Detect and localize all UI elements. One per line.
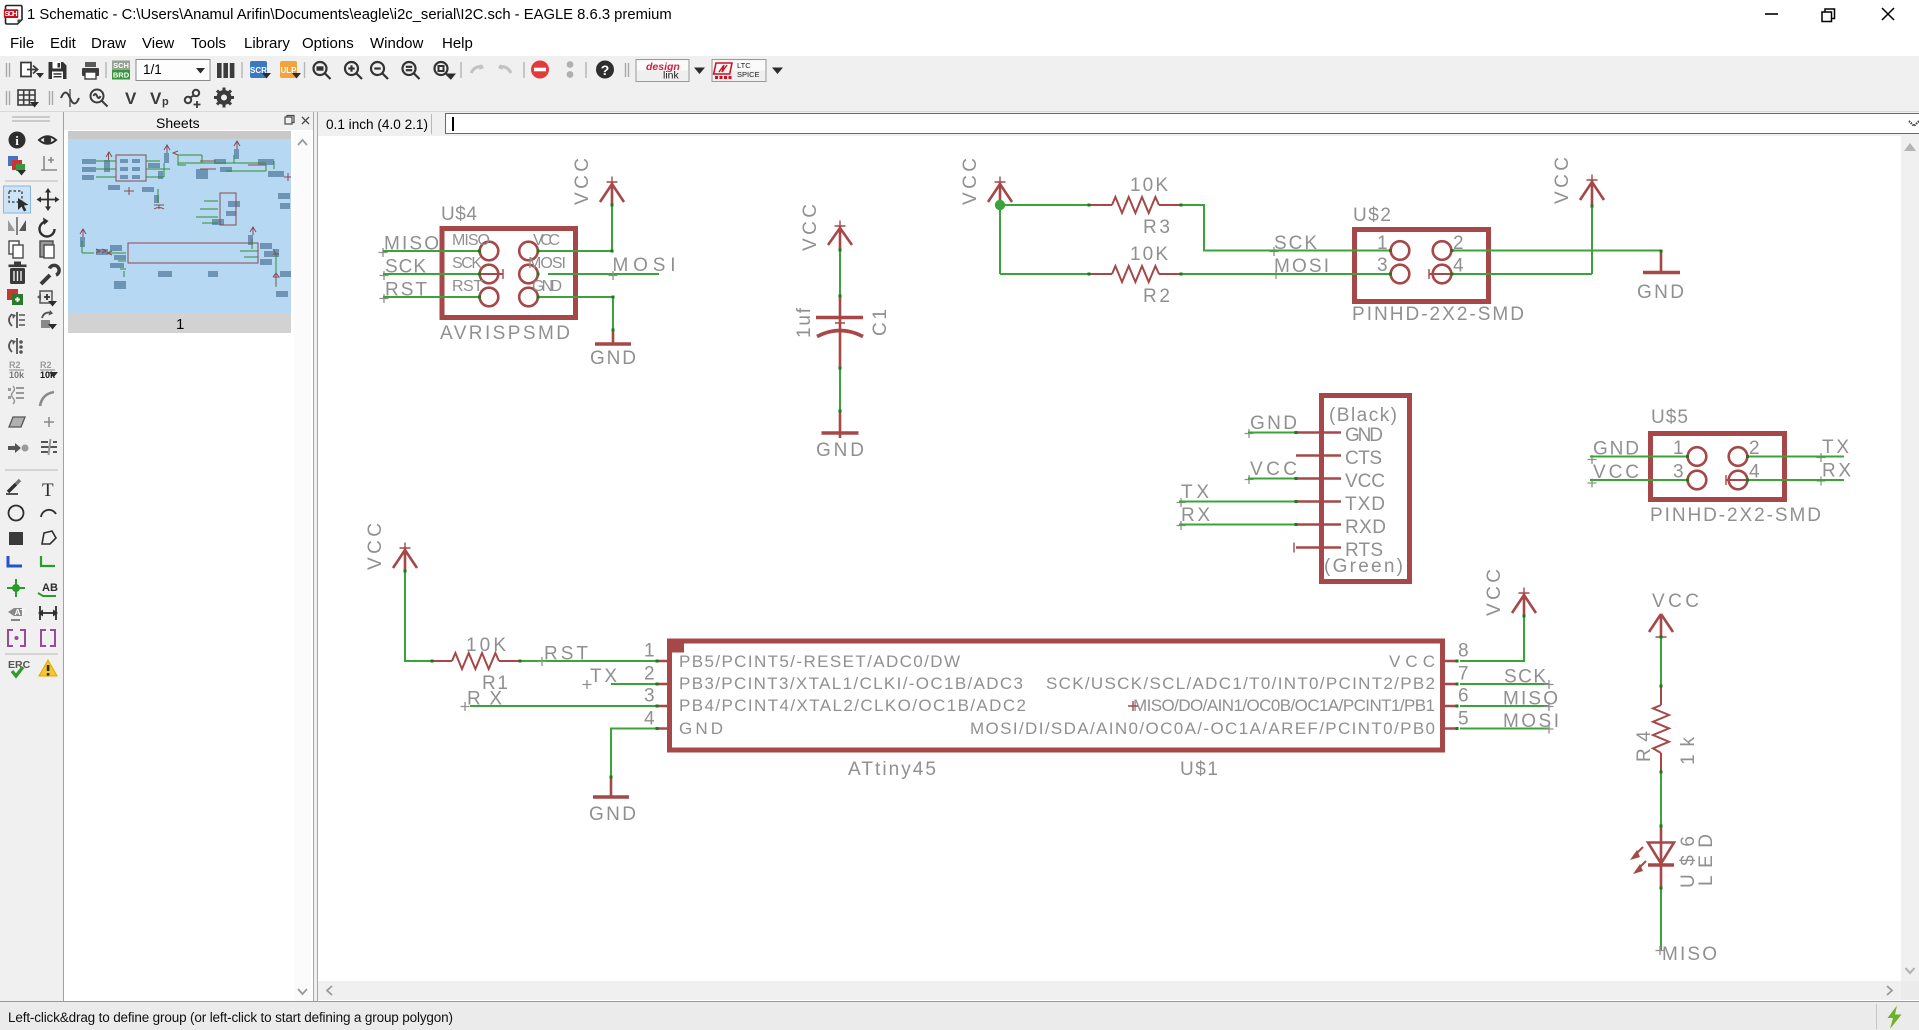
svg-text:U$5: U$5 — [1651, 407, 1688, 428]
net label GND FTDI — [1245, 413, 1298, 438]
add part — [7, 289, 23, 305]
LTC SPICE button — [712, 60, 766, 82]
wrench — [41, 265, 59, 284]
wire TX U$5 — [1747, 456, 1844, 458]
net label RST — [380, 280, 428, 304]
dim brackets 2 — [41, 630, 55, 646]
sheet thumbnail — [68, 131, 291, 333]
svg-text:10K: 10K — [1130, 244, 1168, 265]
net label VCC FTDI — [1245, 459, 1298, 484]
wire pin7 SCK — [1460, 683, 1549, 685]
ULP badge — [280, 61, 301, 79]
attribute tool — [8, 607, 26, 620]
svg-text:U$4: U$4 — [441, 204, 477, 225]
svg-text:GND: GND — [1637, 282, 1684, 303]
connector FTDI body — [1294, 396, 1410, 582]
dim brackets 1 — [8, 630, 25, 646]
smash — [8, 386, 24, 404]
wire VCC to R1 — [405, 571, 432, 661]
label tool — [38, 582, 58, 596]
svg-text:V: V — [150, 89, 162, 108]
svg-text:?: ? — [601, 62, 610, 78]
svg-text:PB4/PCINT4/XTAL2/CLKO/OC1B/ADC: PB4/PCINT4/XTAL2/CLKO/OC1B/ADC2 — [679, 696, 1026, 715]
svg-text:TX: TX — [1181, 482, 1209, 503]
svg-text:VCC: VCC — [1389, 652, 1435, 671]
resistor R2 — [1089, 244, 1181, 307]
svg-text:SCH: SCH — [5, 9, 18, 18]
supply VCC U$1 — [1484, 569, 1536, 616]
wire R4 to LED — [1660, 772, 1662, 826]
net label MOSI — [1272, 256, 1330, 279]
net label TX — [583, 666, 618, 689]
wire RST — [383, 296, 480, 298]
svg-text:AB: AB — [42, 582, 58, 594]
SCH/BRD badge — [112, 61, 130, 80]
replace / lock — [41, 310, 57, 330]
wire TX FTDI — [1179, 501, 1296, 503]
junction tool — [7, 579, 25, 597]
width tool — [38, 606, 58, 620]
svg-text:VCC: VCC — [1345, 471, 1385, 492]
pin contact dots — [404, 204, 1750, 890]
wire GND FTDI — [1248, 432, 1296, 434]
net label MISO U$1 — [1503, 689, 1558, 712]
grid icon — [18, 90, 35, 105]
zoom icons — [314, 62, 452, 79]
net label GND U$5 — [1588, 439, 1640, 465]
bus tool — [8, 556, 22, 566]
net label SCK — [380, 257, 427, 281]
link plus — [185, 90, 201, 108]
pin 4 stub U$2 — [1429, 269, 1463, 279]
svg-text:8: 8 — [1458, 641, 1469, 662]
svg-text:CTS: CTS — [1345, 448, 1382, 469]
svg-text:PINHD-2X2-SMD: PINHD-2X2-SMD — [1352, 304, 1524, 325]
svg-text:1k: 1k — [1678, 737, 1699, 766]
svg-text:LED: LED — [1696, 834, 1717, 886]
wire RX U$5 — [1747, 479, 1844, 481]
gear — [214, 88, 234, 108]
wire VCC down to R2 — [999, 205, 1001, 274]
LED U$6 — [1630, 826, 1717, 888]
arc tool — [41, 510, 56, 517]
net label MOSI U$1 — [1503, 711, 1559, 734]
wire MISO — [383, 250, 480, 252]
sheets scrollbar — [294, 131, 311, 1001]
wire MOSI U$4 — [548, 273, 659, 275]
supply VCC R3 junction — [960, 158, 1012, 205]
wire VCC to R4 — [1660, 637, 1662, 686]
ground GND U$2 — [1637, 251, 1684, 303]
svg-text:V: V — [125, 89, 137, 108]
wire RX FTDI — [1179, 524, 1296, 526]
svg-text:LTC: LTC — [737, 61, 751, 70]
svg-text:i: i — [15, 133, 19, 148]
capacitor C1 — [794, 296, 891, 368]
resistor R4 — [1634, 686, 1699, 772]
help icon — [596, 61, 614, 79]
ground GND C1 — [816, 411, 864, 461]
ground GND U$4 — [590, 330, 636, 369]
svg-text:MISO: MISO — [1662, 944, 1717, 965]
wire R3 to U$2 pin1 — [1181, 205, 1391, 251]
svg-text:U$1: U$1 — [1180, 759, 1218, 780]
sine icon — [61, 93, 79, 104]
svg-text:10K: 10K — [466, 635, 506, 656]
svg-text:VCC: VCC — [1484, 569, 1505, 616]
connector U$2 body — [1355, 230, 1489, 302]
svg-text:MISO: MISO — [452, 232, 490, 249]
wire LED to MISO — [1660, 888, 1662, 950]
svg-text:GND: GND — [589, 804, 636, 825]
stop icon — [531, 61, 549, 79]
wire R1 to pin1 — [520, 660, 657, 662]
wire tool — [6, 480, 20, 494]
svg-text:VCC: VCC — [1652, 591, 1699, 612]
svg-text:PB5/PCINT5/-RESET/ADC0/DW: PB5/PCINT5/-RESET/ADC0/DW — [679, 652, 960, 671]
svg-text:RX: RX — [1181, 505, 1210, 526]
miter — [40, 392, 54, 406]
IC U$1 ATtiny45 body — [644, 639, 1469, 750]
svg-text:RST: RST — [544, 644, 588, 665]
net label MISO LED — [1656, 944, 1718, 965]
net label RST — [538, 644, 589, 667]
net label TX FTDI — [1177, 482, 1210, 507]
wire VCC U$5 — [1590, 479, 1688, 481]
wire GND U$4 — [538, 297, 613, 330]
svg-text:VCC: VCC — [572, 158, 593, 205]
gateswap — [9, 338, 23, 354]
supply VCC U$2 — [1552, 157, 1604, 206]
value icon — [40, 360, 58, 380]
svg-text:R4: R4 — [1634, 731, 1655, 762]
net label RX U$5 — [1817, 461, 1852, 486]
svg-text:BRD: BRD — [113, 71, 130, 80]
svg-text:GND: GND — [679, 719, 723, 738]
ground GND U$1 — [589, 777, 636, 825]
svg-text:VCC: VCC — [1552, 157, 1573, 204]
net label MOSI — [609, 255, 676, 280]
svg-text:PINHD-2X2-SMD: PINHD-2X2-SMD — [1650, 505, 1821, 526]
wire VCC FTDI — [1248, 478, 1296, 480]
svg-text:MOSI/DI/SDA/AIN0/OC0A/-OC1A/AR: MOSI/DI/SDA/AIN0/OC0A/-OC1A/AREF/PCINT0/… — [970, 719, 1435, 738]
svg-text:VCC: VCC — [960, 158, 981, 205]
svg-text:7: 7 — [1458, 664, 1469, 685]
junction node — [995, 200, 1005, 210]
open icon — [21, 63, 38, 77]
net label MISO — [379, 234, 440, 258]
svg-text:SCK/USCK/SCL/ADC1/T0/INT0/PCIN: SCK/USCK/SCL/ADC1/T0/INT0/PCINT2/PB2 — [1046, 674, 1435, 693]
print icon — [82, 62, 99, 79]
wire pin8 to VCC — [1460, 616, 1524, 661]
svg-text:6: 6 — [1458, 686, 1469, 707]
svg-text:VCC: VCC — [800, 204, 821, 251]
circle tool — [9, 506, 24, 521]
svg-text:1: 1 — [176, 316, 184, 333]
svg-text:link: link — [663, 70, 680, 82]
trash — [9, 262, 27, 285]
pinswap — [9, 312, 25, 328]
svg-text:VCC: VCC — [365, 523, 386, 570]
poly — [9, 417, 25, 427]
wire GND U$5 — [1590, 456, 1688, 458]
svg-text:10K: 10K — [1130, 175, 1168, 196]
wire VCC to R3 — [1000, 204, 1089, 206]
svg-text:SCH: SCH — [113, 61, 129, 70]
invoke — [8, 443, 29, 453]
wire GND pin4 — [611, 729, 657, 778]
svg-text:3: 3 — [1377, 255, 1388, 276]
wire C1 top — [839, 250, 841, 296]
svg-text:SCK: SCK — [452, 255, 482, 272]
net label SCK U$1 — [1504, 667, 1554, 690]
wire VCC stem U$2 — [1591, 206, 1593, 274]
svg-text:MISO/DO/AIN1/OC0B/OC1A/PCINT1/: MISO/DO/AIN1/OC0B/OC1A/PCINT1/PB1 — [1133, 696, 1435, 715]
svg-text:GND: GND — [590, 348, 636, 369]
wire to R2 — [1000, 273, 1089, 275]
svg-text:RXD: RXD — [1345, 517, 1386, 538]
svg-text:GND: GND — [532, 278, 562, 295]
align — [41, 439, 57, 455]
eye — [39, 136, 56, 144]
mirror — [8, 217, 26, 235]
svg-text:RTS: RTS — [1345, 540, 1383, 561]
resistor R1 — [432, 635, 520, 694]
wire SCK — [383, 273, 480, 275]
rotate — [40, 218, 55, 237]
wire R2 to U$2 pin3 — [1181, 273, 1391, 275]
svg-text:SCK: SCK — [1504, 667, 1546, 688]
svg-text:R2: R2 — [9, 360, 21, 370]
net label VCC U$5 — [1588, 462, 1640, 488]
connector U$5 body — [1651, 434, 1785, 500]
wire pin5 MOSI — [1460, 728, 1549, 730]
supply VCC U$4 — [572, 158, 624, 205]
sheet combo — [136, 60, 210, 81]
svg-text:3: 3 — [644, 686, 655, 707]
supply VCC R4 — [1649, 591, 1699, 643]
svg-text:1: 1 — [644, 641, 655, 662]
wire U$2 pin2 to GND — [1451, 250, 1661, 252]
svg-text:2: 2 — [644, 664, 655, 685]
net tool — [41, 556, 55, 566]
svg-text:T: T — [42, 480, 54, 501]
svg-text:R2: R2 — [1143, 286, 1170, 307]
svg-text:RST: RST — [452, 278, 483, 295]
svg-text:MOSI: MOSI — [528, 255, 566, 272]
svg-text:ATtiny45: ATtiny45 — [848, 759, 936, 780]
probe loupe — [91, 90, 108, 107]
net label TX U$5 — [1817, 437, 1850, 462]
connector U$4 AVRISPSMD body — [442, 229, 576, 318]
svg-text:TXD: TXD — [1345, 494, 1385, 515]
net label RX — [461, 689, 503, 712]
pin 4 stub U$5 — [1726, 475, 1759, 485]
polygon tool — [42, 531, 56, 544]
dimension — [41, 156, 57, 170]
columns icon — [217, 63, 234, 78]
paste — [40, 241, 54, 258]
svg-text:GND: GND — [1250, 413, 1297, 434]
net label RX FTDI — [1177, 505, 1211, 530]
resistor R3 — [1089, 175, 1181, 238]
svg-text:MOSI: MOSI — [613, 255, 676, 276]
svg-text:RX: RX — [1822, 461, 1851, 482]
undo redo disabled — [471, 64, 511, 73]
rect tool — [9, 532, 23, 545]
svg-text:VCC: VCC — [1250, 459, 1297, 480]
svg-text:5: 5 — [1458, 708, 1469, 729]
save icon — [49, 62, 67, 79]
pin SCK stub U$4 — [481, 269, 503, 279]
erc — [8, 659, 31, 676]
svg-text:U$2: U$2 — [1353, 205, 1391, 226]
net label SCK — [1270, 233, 1318, 256]
name icon — [9, 360, 25, 380]
split — [44, 417, 54, 427]
svg-text:PB3/PCINT3/XTAL1/CLKI/-OC1B/AD: PB3/PCINT3/XTAL1/CLKI/-OC1B/ADC3 — [679, 674, 1023, 693]
svg-text:AVRISPSMD: AVRISPSMD — [440, 323, 570, 344]
svg-text:SPICE: SPICE — [737, 70, 760, 79]
svg-text:R2: R2 — [40, 360, 52, 370]
svg-text:10k: 10k — [9, 370, 25, 380]
wire U$2 pin4 to VCC — [1452, 273, 1592, 275]
design link button — [636, 60, 689, 82]
traffic dots — [567, 61, 574, 78]
svg-text:TX: TX — [1822, 437, 1849, 458]
svg-text:C1: C1 — [870, 309, 891, 336]
wire TX to pin2 — [611, 683, 657, 685]
group select (active) — [4, 186, 31, 213]
copy — [9, 241, 23, 258]
wire pin6 MISO — [1460, 705, 1549, 707]
svg-text:VCC: VCC — [533, 232, 560, 249]
svg-text:GND: GND — [816, 440, 864, 461]
svg-text:1uf: 1uf — [794, 307, 815, 338]
svg-text:(Black): (Black) — [1329, 405, 1397, 426]
add next — [37, 291, 57, 307]
layers — [8, 156, 26, 176]
wire RX to pin3 — [470, 705, 657, 707]
svg-text:GND: GND — [1345, 425, 1383, 446]
svg-text:p: p — [162, 96, 169, 108]
svg-text:R3: R3 — [1143, 217, 1170, 238]
SCR badge — [250, 61, 271, 79]
warning — [39, 660, 57, 676]
supply VCC C1 — [800, 204, 852, 251]
svg-text:AT: AT — [15, 607, 27, 617]
wire C1 bottom — [839, 368, 841, 411]
supply VCC R1 — [365, 523, 417, 571]
move — [37, 188, 60, 211]
svg-text:4: 4 — [644, 708, 655, 729]
info — [9, 132, 26, 149]
wire VCC U$4 — [538, 205, 612, 251]
svg-text:1/1: 1/1 — [143, 62, 162, 77]
